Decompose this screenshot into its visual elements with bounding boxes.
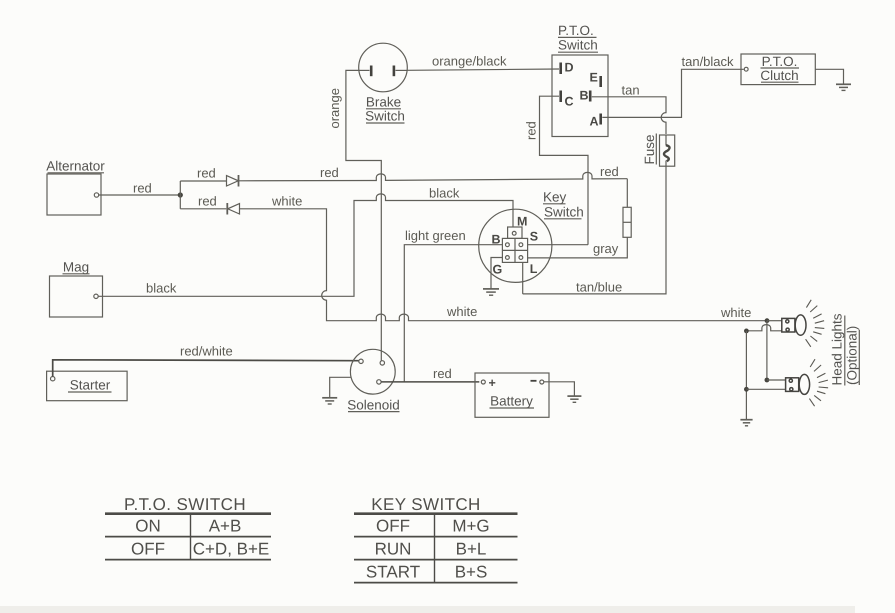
pin E label xyxy=(590,71,598,85)
label red (bottom branch) xyxy=(198,194,217,209)
PTO clutch label xyxy=(760,54,798,83)
svg-text:black: black xyxy=(429,186,460,201)
wire (solenoid to ground) xyxy=(330,377,351,397)
node (ground bus lower) xyxy=(744,387,749,392)
svg-text:Alternator: Alternator xyxy=(46,159,105,174)
pin A tick xyxy=(599,114,602,125)
diode D1 (pointing right) xyxy=(227,175,239,187)
battery - mark xyxy=(531,380,537,382)
svg-text:S: S xyxy=(530,229,538,243)
svg-text:orange: orange xyxy=(327,88,342,128)
svg-text:Mag: Mag xyxy=(63,260,89,275)
svg-text:E: E xyxy=(590,71,598,85)
svg-text:red: red xyxy=(433,366,452,381)
table PTO switch rules xyxy=(105,514,271,560)
wire (L of key switch down to tan/blue) xyxy=(522,262,524,294)
ground (solenoid) xyxy=(322,398,337,404)
pin D label xyxy=(565,61,574,75)
lamp 2 (lower headlight) xyxy=(786,374,810,394)
wire tan (fuse down) + tan/blue (to L of key switch) xyxy=(523,166,666,294)
label red (battery wire) xyxy=(433,366,452,381)
label tan/blue xyxy=(576,280,622,295)
label white (after diode) xyxy=(271,194,302,209)
PTO clutch label underlines xyxy=(761,68,800,82)
pin D tick xyxy=(559,63,562,75)
starter label xyxy=(70,378,111,393)
wire red bus (diode D1 to breaker, hops over orange and C-S vertical) xyxy=(239,172,628,180)
svg-text:B+S: B+S xyxy=(455,563,488,582)
wire (white bus into top lamp) xyxy=(767,320,782,322)
node (white bus to headlights) xyxy=(765,318,770,323)
head lights label (rotated) xyxy=(830,313,845,385)
label orange/black xyxy=(432,54,507,69)
solenoid xyxy=(350,349,395,394)
svg-text:orange/black: orange/black xyxy=(432,54,507,69)
wire orange/black (brake switch to PTO D) xyxy=(407,69,559,70)
wire (top lamp return, hops over feed) xyxy=(746,325,781,331)
svg-text:red: red xyxy=(133,181,152,196)
label tan xyxy=(622,83,640,98)
svg-text:light green: light green xyxy=(405,228,466,243)
ground (battery) xyxy=(567,396,581,402)
PTO switch label underlines xyxy=(558,37,598,52)
solenoid label underline xyxy=(348,411,400,413)
label red (near breaker) xyxy=(600,164,619,179)
svg-text:Switch: Switch xyxy=(558,38,598,53)
wire (lower lamp return) xyxy=(746,388,785,390)
ground (PTO clutch) xyxy=(836,84,851,90)
fuse label underline xyxy=(655,134,657,165)
svg-text:tan/black: tan/black xyxy=(682,54,735,69)
label red (top branch) xyxy=(197,166,216,181)
wire black (mag to M of key switch) xyxy=(98,194,513,296)
battery label underline xyxy=(490,407,535,409)
wire junction riser xyxy=(179,181,181,209)
ground (key switch) xyxy=(483,289,499,295)
diode D2 (pointing left) xyxy=(227,203,239,215)
pin A label xyxy=(590,115,599,129)
starter label underline xyxy=(68,391,112,393)
key switch terminal grid (B,S,G,L) xyxy=(502,238,527,262)
starter box xyxy=(47,371,128,401)
svg-text:Switch: Switch xyxy=(365,109,405,124)
wire (S of key switch to red vertical) xyxy=(528,244,588,246)
brake switch xyxy=(359,43,408,92)
svg-text:red: red xyxy=(320,165,339,180)
svg-text:B: B xyxy=(580,89,589,103)
brake switch label underlines xyxy=(366,109,405,123)
svg-text:black: black xyxy=(146,281,177,296)
wire (red bus down to breaker) xyxy=(626,179,628,208)
lamp 2 rays xyxy=(809,359,828,406)
svg-text:A+B: A+B xyxy=(209,517,242,536)
pin B tick xyxy=(589,91,592,102)
label black (mag wire) xyxy=(146,281,177,296)
label red (alternator wire) xyxy=(133,181,152,196)
ground (headlights) xyxy=(740,420,752,426)
alternator box xyxy=(47,174,101,215)
label orange (rotated) xyxy=(327,88,342,128)
pin C label xyxy=(565,95,574,109)
wire (headlight feed down to lower lamp) xyxy=(766,321,768,380)
pin S label xyxy=(530,229,538,243)
PTO clutch box xyxy=(741,54,815,85)
svg-text:tan/blue: tan/blue xyxy=(576,280,622,295)
lamp 1 rays xyxy=(806,300,825,347)
wire light green (B of key switch down to solenoid/battery node) xyxy=(404,245,502,382)
table key switch xyxy=(366,495,490,582)
table key switch rules xyxy=(354,514,518,583)
PTO switch label xyxy=(558,23,598,53)
svg-text:red: red xyxy=(197,166,216,181)
svg-text:red: red xyxy=(524,121,539,140)
brake switch label xyxy=(365,95,405,124)
svg-text:START: START xyxy=(366,563,420,582)
svg-text:KEY SWITCH: KEY SWITCH xyxy=(371,495,480,514)
alternator label underline xyxy=(48,172,105,174)
lamp 1 (top headlight) xyxy=(782,315,806,335)
label white (mid bus) xyxy=(446,304,477,319)
svg-text:Fuse: Fuse xyxy=(642,134,657,164)
wire tan/black (A of PTO to clutch, hops over tan) xyxy=(602,69,744,117)
svg-text:Key: Key xyxy=(543,190,567,205)
svg-text:P.T.O.: P.T.O. xyxy=(762,54,798,69)
key switch label underlines xyxy=(543,204,582,219)
wire (G of key switch to ground) xyxy=(491,258,502,289)
svg-text:ON: ON xyxy=(135,517,161,536)
node (lower lamp feed) xyxy=(765,378,770,383)
label black (to key switch) xyxy=(429,186,460,201)
fuse label (rotated) xyxy=(642,134,657,164)
label red (rotated, C wire) xyxy=(524,121,539,140)
svg-text:Head Lights: Head Lights xyxy=(830,313,845,385)
svg-text:Solenoid: Solenoid xyxy=(347,397,400,412)
pin M label xyxy=(517,215,527,229)
node junction A (alternator split) xyxy=(178,192,183,197)
svg-text:C: C xyxy=(565,95,574,109)
svg-text:Brake: Brake xyxy=(366,95,401,110)
svg-text:Battery: Battery xyxy=(490,394,533,409)
pin B label xyxy=(580,89,589,103)
wire white (diode D2 right, turns down, hops black, runs to headlights) xyxy=(240,209,768,321)
wire gray (breaker to L of key switch) xyxy=(528,237,628,258)
label tan/black xyxy=(682,54,735,69)
solenoid label xyxy=(347,397,400,412)
svg-text:white: white xyxy=(720,305,751,320)
battery label xyxy=(490,394,533,409)
fuse F1 xyxy=(660,135,675,166)
svg-text:Switch: Switch xyxy=(544,204,584,219)
svg-text:D: D xyxy=(565,61,574,75)
mag label xyxy=(63,260,89,275)
svg-text:RUN: RUN xyxy=(375,540,412,559)
svg-text:B+L: B+L xyxy=(456,540,487,559)
table PTO switch xyxy=(124,495,269,559)
wire tan (B of PTO to fuse) xyxy=(592,97,666,134)
pin C tick xyxy=(559,91,562,103)
PTO switch box xyxy=(552,55,608,137)
svg-text:A: A xyxy=(590,115,599,129)
svg-text:P.T.O. SWITCH: P.T.O. SWITCH xyxy=(124,495,246,514)
wire red/white (starter to solenoid) xyxy=(53,360,359,377)
wire orange (brake switch to solenoid) xyxy=(346,70,381,361)
mag box xyxy=(50,276,103,317)
svg-text:Clutch: Clutch xyxy=(760,68,798,83)
svg-text:tan: tan xyxy=(622,83,640,98)
wire (to lower lamp) xyxy=(767,379,786,381)
alternator label xyxy=(46,159,105,174)
svg-text:white: white xyxy=(446,304,477,319)
wire (headlight ground bus) xyxy=(745,331,747,420)
svg-text:G: G xyxy=(493,262,503,276)
svg-text:OFF: OFF xyxy=(376,517,410,536)
wire red top branch (to diode D1) xyxy=(180,180,226,182)
node (ground bus top) xyxy=(744,329,749,334)
label red (mid bus) xyxy=(320,165,339,180)
svg-text:OFF: OFF xyxy=(131,540,165,559)
circuit breaker (red to gray) xyxy=(623,207,631,237)
svg-text:Starter: Starter xyxy=(70,378,111,393)
scan shadow bottom edge xyxy=(0,606,855,613)
head lights label underline xyxy=(844,316,846,386)
key switch circle xyxy=(479,209,552,282)
mag label underline xyxy=(63,273,90,275)
key switch M terminal box xyxy=(508,227,522,238)
svg-text:white: white xyxy=(271,194,302,209)
wire red bottom branch (to diode D2) xyxy=(180,208,226,210)
wire red (alternator to junction) xyxy=(99,194,178,196)
battery box xyxy=(475,373,549,417)
wire red (C of PTO down to S of key switch) xyxy=(540,96,589,245)
wire red (solenoid to battery +) xyxy=(381,381,479,383)
label red/white xyxy=(180,344,233,359)
svg-text:P.T.O.: P.T.O. xyxy=(558,23,594,38)
label white (near headlights) xyxy=(720,305,751,320)
svg-text:red: red xyxy=(600,164,619,179)
svg-text:red: red xyxy=(198,194,217,209)
optional label underline xyxy=(858,330,860,385)
wire (battery - to ground) xyxy=(544,382,575,396)
svg-text:L: L xyxy=(530,262,538,276)
svg-text:M+G: M+G xyxy=(452,517,489,536)
svg-text:M: M xyxy=(517,215,527,229)
svg-text:(Optional): (Optional) xyxy=(845,326,860,385)
pin B label xyxy=(492,233,501,247)
svg-text:+: + xyxy=(489,376,496,390)
optional label (rotated) xyxy=(845,326,860,385)
pin L label xyxy=(530,262,538,276)
wire (clutch to ground) xyxy=(815,69,843,84)
svg-text:C+D, B+E: C+D, B+E xyxy=(193,540,270,559)
svg-text:gray: gray xyxy=(593,241,619,256)
battery + mark xyxy=(489,376,496,390)
label light green xyxy=(405,228,466,243)
pin E tick xyxy=(599,76,602,87)
key switch label xyxy=(543,190,584,220)
svg-text:red/white: red/white xyxy=(180,344,233,359)
label gray xyxy=(593,241,619,256)
pin G label xyxy=(493,262,503,276)
